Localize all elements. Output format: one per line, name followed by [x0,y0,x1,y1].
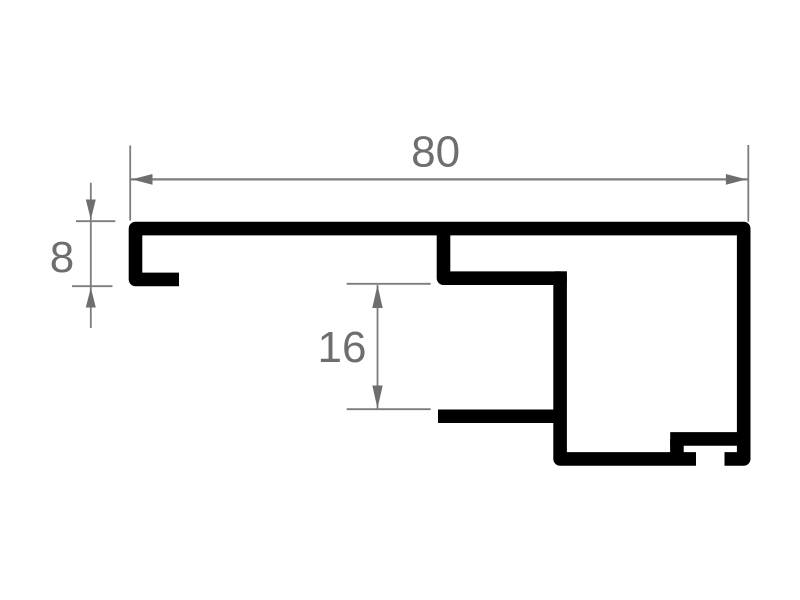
svg-text:16: 16 [318,323,367,372]
svg-text:8: 8 [50,233,74,282]
svg-text:80: 80 [411,127,460,176]
